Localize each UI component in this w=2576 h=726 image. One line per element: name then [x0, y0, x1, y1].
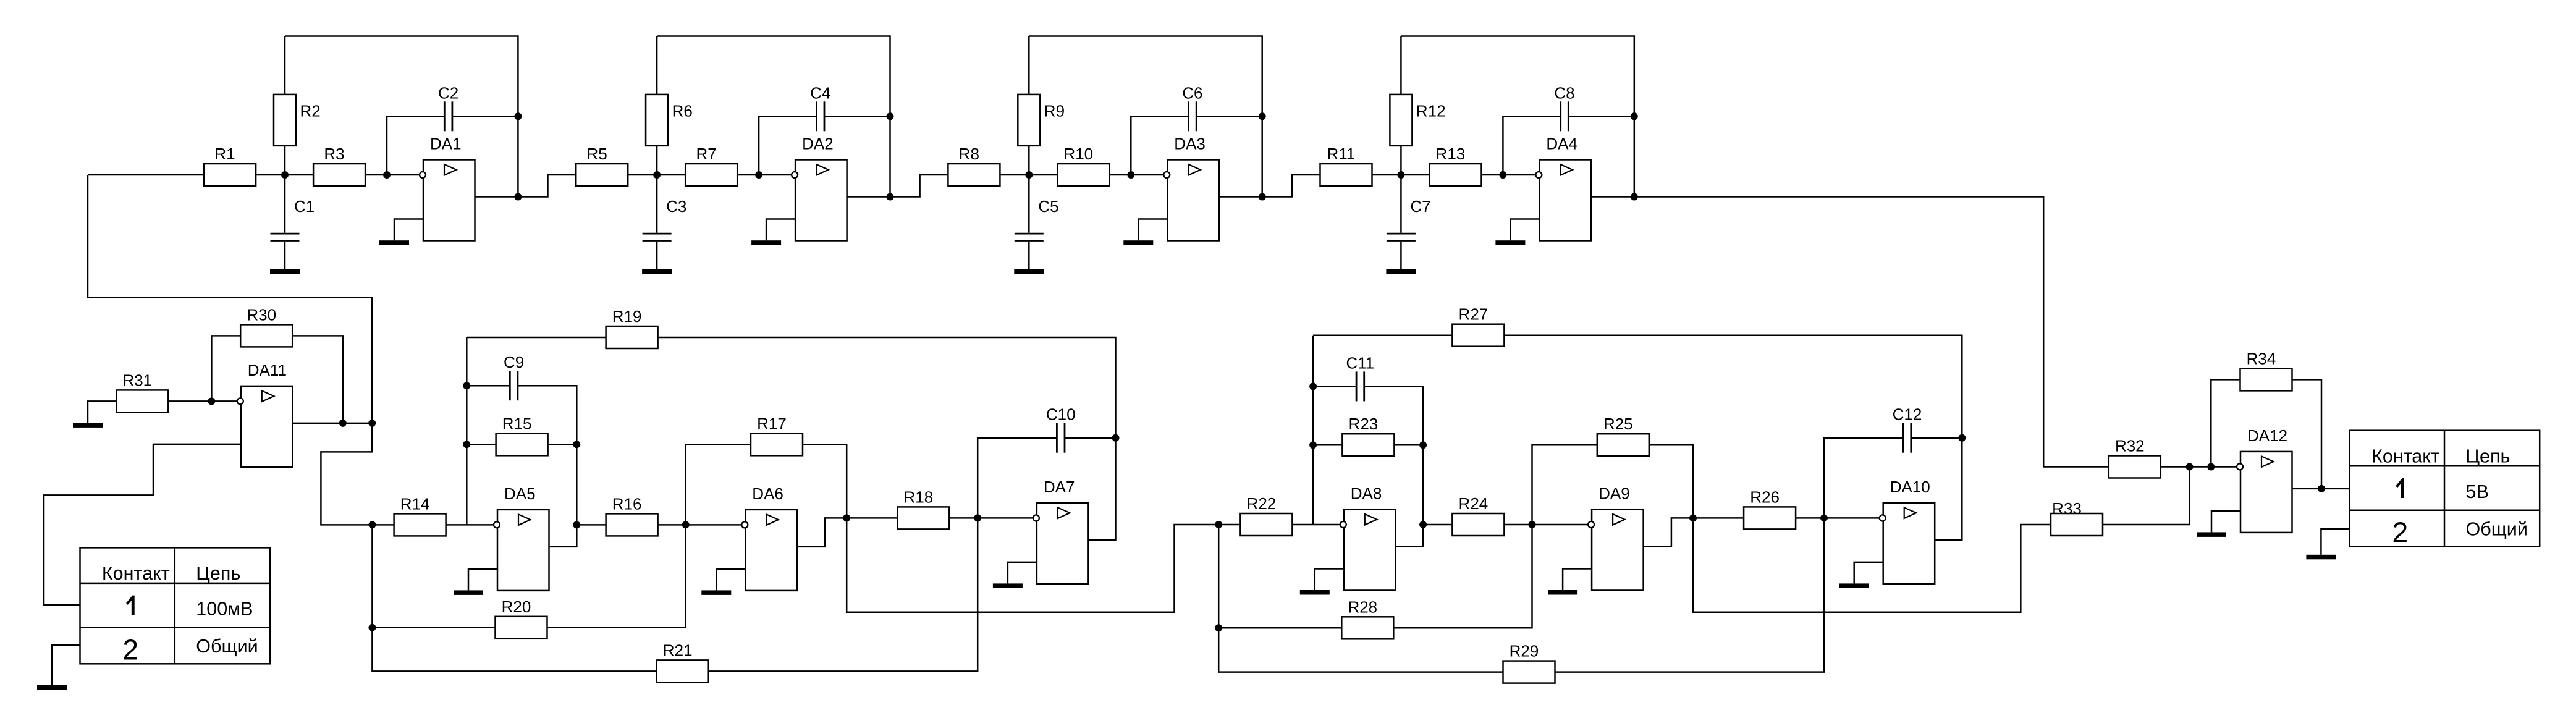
ground under C5: [1014, 269, 1044, 274]
op-amp DA8: [1340, 484, 1396, 591]
wire C4 right leg: [824, 116, 890, 117]
ground at DA7: [993, 583, 1023, 588]
wire C10 right leg: [1065, 437, 1116, 439]
wire DA5 output up: [549, 525, 577, 547]
wire node 1 segment: [256, 174, 313, 176]
wire DA12 noninv to ground: [2211, 511, 2240, 533]
wire R23 left leg: [1313, 444, 1342, 446]
op-amp DA9: [1588, 484, 1644, 591]
node junction R11/R12/R13/C7: [1397, 171, 1404, 179]
ground at input connector: [37, 685, 67, 690]
wire stage1 input feed from DA11 output: [88, 175, 372, 423]
resistor R2: [274, 95, 321, 146]
wire row B to R18: [847, 517, 897, 519]
resistor R3: [313, 145, 365, 186]
wire R28 right to mid node: [1393, 525, 1532, 628]
node DA3 output: [1259, 193, 1266, 201]
resistor R24: [1452, 494, 1504, 536]
svg-text:R23: R23: [1349, 415, 1379, 433]
svg-text:R33: R33: [2052, 499, 2082, 518]
resistor R25: [1597, 415, 1649, 456]
svg-text:2: 2: [2392, 517, 2408, 549]
svg-text:C6: C6: [1182, 83, 1202, 102]
wire R9 bottom to node: [1028, 145, 1030, 175]
node junction R8/R9/R10/C5: [1025, 171, 1033, 179]
node C11 left: [1309, 382, 1317, 390]
wire DA6 noninv to ground: [716, 569, 745, 591]
resistor R26: [1744, 488, 1796, 529]
wire C6 left leg: [1131, 116, 1188, 175]
ground at output connector: [2306, 555, 2336, 560]
wire R29 right to DA10 input: [1555, 518, 1825, 672]
op-amp DA11: [237, 361, 293, 467]
wire R7 to op-amp input: [737, 174, 792, 176]
node R30/DA11 output: [339, 420, 347, 427]
wire R28 left: [1218, 627, 1341, 629]
resistor R1: [204, 145, 256, 186]
ground under C7: [1386, 269, 1416, 274]
node R20 tap: [368, 624, 376, 631]
node R23 left: [1309, 441, 1317, 449]
node DA5 output/R16: [573, 521, 580, 528]
svg-text:R21: R21: [663, 641, 693, 659]
svg-text:R11: R11: [1327, 145, 1356, 163]
capacitor C5: [1015, 197, 1059, 241]
wire C6 right leg: [1196, 116, 1262, 117]
wire DA7 noninv to ground: [1008, 562, 1037, 584]
ground at DA8: [1300, 590, 1330, 595]
svg-text:R34: R34: [2247, 349, 2276, 368]
svg-text:C5: C5: [1038, 197, 1058, 216]
wire DA9 output down and onward: [1693, 518, 2065, 612]
svg-text:DA5: DA5: [504, 484, 536, 503]
svg-text:R24: R24: [1459, 494, 1489, 513]
svg-text:C9: C9: [504, 353, 524, 371]
ground at R31: [73, 423, 103, 428]
svg-text:R5: R5: [586, 145, 607, 163]
svg-text:R15: R15: [502, 414, 532, 433]
capacitor C9: [504, 353, 524, 400]
resistor R32: [2109, 436, 2161, 478]
wire R20 left: [372, 627, 495, 629]
wire DA1 noninv input to ground: [394, 219, 423, 241]
resistor R33: [2051, 499, 2103, 536]
svg-text:R26: R26: [1750, 488, 1780, 506]
wire R16 to DA6: [658, 524, 742, 526]
wire R23 right leg: [1394, 444, 1423, 446]
wire R30 left leg: [211, 336, 240, 401]
wire R31 to ground: [88, 401, 116, 423]
wire C2 left leg: [387, 116, 444, 175]
wire node 7 segment: [1372, 174, 1429, 176]
node R15 right: [573, 441, 580, 448]
svg-text:C12: C12: [1893, 405, 1922, 424]
svg-text:DA2: DA2: [802, 135, 834, 153]
wire C8 right leg: [1568, 116, 1634, 117]
wire DA2 output: [847, 196, 890, 198]
resistor R10: [1057, 145, 1109, 186]
op-amp DA6: [741, 484, 797, 591]
wire top feedback R6 to output node: [657, 36, 890, 197]
wire C2 right leg: [452, 116, 518, 117]
node DA9 output: [1689, 514, 1697, 521]
wire C11 left leg: [1313, 386, 1356, 387]
wire input from DA11 output to R1: [88, 174, 205, 176]
wire C8 left leg: [1503, 116, 1560, 175]
node R23 right: [1419, 441, 1427, 449]
op-amp DA2: [792, 135, 847, 241]
wire DA7 output: [1088, 438, 1115, 540]
node junction R1/R2/R3/C1: [281, 171, 289, 179]
wire R13 to op-amp input: [1482, 174, 1536, 176]
node DA1 output: [514, 193, 522, 201]
wire DA1 output: [475, 196, 518, 198]
capacitor C10: [1046, 405, 1076, 453]
node junction R10/op-amp/C6: [1127, 171, 1134, 179]
svg-text:Контакт: Контакт: [2371, 445, 2439, 466]
wire R12 top to feedback: [1400, 36, 1402, 95]
capacitor C12: [1893, 405, 1922, 453]
resistor R29: [1503, 642, 1555, 683]
wire R20 right to mid node: [547, 525, 686, 627]
wire C7 to ground: [1400, 242, 1402, 269]
capacitor C7: [1387, 197, 1431, 241]
wire node to C1: [284, 175, 286, 233]
resistor R13: [1430, 145, 1482, 186]
wire R12 bottom to node: [1400, 145, 1402, 175]
wire R30 right leg: [292, 336, 343, 423]
wire DA8 noninv to ground: [1315, 569, 1344, 591]
wire DA10 output: [1935, 438, 1962, 540]
wire node vertical to R20/R21: [372, 525, 656, 671]
wire DA11 output: [292, 423, 372, 424]
wire R3 to op-amp input: [365, 174, 420, 176]
wire R19 left: [467, 337, 606, 339]
node R30/R31/DA11 input: [208, 397, 215, 405]
node R14 input: [368, 521, 376, 528]
wire DA6 output up to row B: [797, 518, 847, 547]
node junction R5/R6/R7/C3: [653, 171, 661, 179]
svg-text:R13: R13: [1436, 145, 1466, 163]
node R34 left leg: [2207, 463, 2215, 471]
resistor R19: [606, 307, 658, 348]
svg-text:R27: R27: [1459, 305, 1489, 324]
wire R26 to DA10: [1796, 517, 1880, 519]
svg-text:DA7: DA7: [1044, 478, 1075, 496]
ground at DA10: [1839, 583, 1869, 588]
capacitor C6: [1182, 83, 1202, 131]
resistor R30: [240, 305, 292, 347]
node DA6 output: [843, 514, 850, 521]
op-amp DA7: [1033, 478, 1089, 584]
wire R27 left: [1313, 334, 1452, 336]
wire C10 left leg: [978, 438, 1057, 518]
node mid R24/DA9/R27/R28: [1529, 521, 1536, 528]
ground at DA3 noninv input: [1123, 240, 1153, 245]
resistor R27: [1452, 305, 1504, 347]
svg-text:R2: R2: [300, 101, 321, 120]
node R15 left: [463, 441, 470, 448]
svg-text:DA3: DA3: [1174, 135, 1206, 153]
svg-text:C4: C4: [810, 83, 830, 102]
svg-text:Цепь: Цепь: [2466, 445, 2511, 466]
svg-text:C7: C7: [1410, 197, 1430, 216]
capacitor C11: [1346, 353, 1375, 401]
svg-text:R28: R28: [1348, 597, 1377, 616]
op-amp DA5: [494, 484, 549, 591]
wire R2 top to feedback: [284, 36, 286, 95]
op-amp DA1: [420, 135, 475, 241]
wire C11 right leg: [1364, 386, 1423, 525]
wire DA11 output jog down to R14 node: [321, 423, 372, 525]
resistor R9: [1018, 95, 1065, 146]
ground at DA6: [701, 590, 731, 595]
ground at DA2 noninv input: [751, 240, 781, 245]
node DA12 output/R34: [2318, 485, 2325, 492]
input connector table (Контакт/Цепь): [80, 547, 271, 665]
wire top feedback R9 to output node: [1029, 36, 1262, 197]
wire DA4 output: [1591, 196, 1634, 198]
svg-text:C3: C3: [666, 197, 686, 216]
node DA11 output/feed: [368, 420, 376, 427]
wire R31 to DA11 input: [168, 400, 240, 402]
svg-text:R8: R8: [959, 145, 979, 163]
svg-text:R14: R14: [400, 494, 430, 513]
svg-text:DA1: DA1: [430, 135, 462, 153]
svg-text:R1: R1: [214, 145, 235, 163]
svg-text:R9: R9: [1044, 101, 1065, 120]
wire DA12 output: [2292, 488, 2350, 490]
wire node 3 segment: [628, 174, 685, 176]
resistor R15: [496, 414, 548, 455]
wire DA11 noninv to input connector pin 1: [44, 444, 241, 605]
capacitor C2: [438, 83, 458, 131]
wire R27 right to DA10 output: [1504, 336, 1962, 438]
wire R19 right to DA7 output: [658, 337, 1116, 438]
wire R15 left leg: [467, 444, 496, 445]
resistor R6: [646, 95, 693, 146]
svg-text:R18: R18: [903, 488, 933, 506]
node DA4 output: [1631, 193, 1638, 201]
wire R6 top to feedback: [656, 36, 658, 95]
resistor R11: [1320, 145, 1372, 186]
wire DA3 output to next stage: [1262, 175, 1320, 197]
svg-text:R16: R16: [612, 494, 642, 513]
node junction R7/op-amp/C4: [755, 171, 762, 179]
wire DA4 noninv input to ground: [1510, 219, 1539, 241]
capacitor C3: [643, 197, 687, 241]
op-amp DA10: [1880, 478, 1935, 584]
wire input connector pin 2 to ground: [52, 645, 80, 685]
svg-text:DA6: DA6: [752, 484, 783, 503]
node C12/R27/DA10 output: [1958, 434, 1966, 442]
ground at DA12: [2197, 532, 2226, 537]
svg-text:Общий: Общий: [196, 636, 258, 657]
wire R34 right leg: [2292, 379, 2322, 489]
wire C5 to ground: [1028, 242, 1030, 269]
wire DA2 output to next stage: [890, 175, 948, 197]
wire top feedback R2 to output node: [285, 36, 518, 197]
svg-text:R30: R30: [247, 305, 276, 324]
wire node 5 segment: [1000, 174, 1057, 176]
wire R25 left leg: [1532, 445, 1597, 525]
wire DA10 noninv to ground: [1854, 562, 1883, 584]
svg-text:R3: R3: [324, 145, 344, 163]
wire R10 to op-amp input: [1109, 174, 1163, 176]
wire R6 bottom to node: [656, 145, 658, 175]
svg-text:R7: R7: [696, 145, 716, 163]
capacitor C4: [810, 83, 830, 131]
wire R24 to DA9: [1504, 524, 1588, 526]
op-amp DA3: [1163, 135, 1219, 241]
wire DA8 output up: [1395, 525, 1423, 547]
svg-text:DA11: DA11: [248, 361, 287, 379]
svg-text:Общий: Общий: [2466, 519, 2528, 540]
wire node to C7: [1400, 175, 1402, 233]
resistor R18: [897, 488, 949, 529]
wire R17 right leg: [803, 444, 847, 518]
ground at DA5: [454, 590, 483, 595]
svg-text:R29: R29: [1510, 642, 1539, 661]
svg-text:100мВ: 100мВ: [196, 599, 253, 620]
svg-text:R17: R17: [757, 414, 787, 433]
wire DA5 noninv to ground: [468, 569, 497, 591]
svg-text:Контакт: Контакт: [102, 563, 170, 584]
resistor R22: [1240, 494, 1292, 536]
resistor R12: [1390, 95, 1445, 146]
svg-text:5В: 5В: [2466, 481, 2489, 502]
svg-text:R20: R20: [502, 597, 531, 616]
resistor R34: [2240, 349, 2292, 390]
capacitor C1: [271, 197, 315, 241]
svg-text:C8: C8: [1554, 83, 1574, 102]
wire DA1 output to next stage: [518, 175, 576, 197]
resistor R31: [116, 371, 168, 412]
wire node to R22: [1218, 524, 1240, 526]
resistor R20: [496, 597, 547, 639]
svg-text:R12: R12: [1416, 101, 1446, 120]
wire feedback left vertical: [1312, 336, 1314, 525]
node DA8 output/R24: [1419, 521, 1427, 528]
svg-text:R10: R10: [1063, 145, 1093, 163]
wire DA9 output up to row B: [1644, 518, 1693, 546]
wire top feedback R12 to output node: [1401, 36, 1634, 197]
wire row B to R26: [1693, 517, 1744, 519]
wire R16 segment: [576, 524, 606, 526]
output connector table (Контакт/Цепь): [2350, 431, 2540, 549]
wire C9 right leg: [518, 386, 576, 525]
node junction R3/op-amp/C2: [383, 171, 391, 179]
ground at DA9: [1548, 590, 1577, 595]
wire C1 to ground: [284, 242, 286, 269]
svg-text:R32: R32: [2115, 436, 2145, 455]
svg-text:C11: C11: [1346, 353, 1375, 372]
node DA2 output: [887, 193, 894, 201]
wire node vertical to R28/R29: [1218, 525, 1503, 672]
resistor R5: [576, 145, 628, 186]
wire R17 left leg: [686, 444, 751, 525]
node R33/R32: [2186, 463, 2194, 471]
wire R14 to DA5 input: [446, 524, 494, 526]
node C6/feedback: [1259, 112, 1266, 120]
wire DA4 output to R32: [1634, 197, 2109, 467]
capacitor C8: [1554, 83, 1574, 131]
wire R21 right to DA7 input: [709, 518, 978, 671]
resistor R17: [751, 414, 803, 455]
svg-text:C10: C10: [1046, 405, 1076, 424]
wire R34 left leg: [2211, 379, 2240, 466]
svg-text:DA9: DA9: [1598, 484, 1630, 503]
resistor R8: [948, 145, 1000, 186]
wire DA3 noninv input to ground: [1138, 219, 1167, 241]
svg-text:R22: R22: [1247, 494, 1277, 513]
svg-text:R19: R19: [612, 307, 642, 326]
resistor R14: [394, 494, 446, 536]
wire R2 bottom to node: [284, 145, 286, 175]
ground under C3: [642, 269, 672, 274]
wire node to R14: [372, 524, 394, 526]
wire C12 right leg: [1911, 437, 1962, 439]
wire R32 to DA12 input: [2161, 466, 2239, 468]
wire C9 left leg: [467, 385, 510, 387]
svg-text:DA4: DA4: [1546, 135, 1577, 153]
wire DA6 output down and onward: [847, 518, 1218, 612]
wire DA9 noninv to ground: [1563, 569, 1592, 591]
wire C4 left leg: [759, 116, 816, 175]
node R22 input: [1215, 521, 1222, 528]
wire node to C3: [656, 175, 658, 233]
wire output connector pin 2 to ground: [2321, 529, 2349, 555]
svg-text:2: 2: [122, 633, 138, 665]
svg-text:DA10: DA10: [1890, 478, 1930, 496]
wire R9 top to feedback: [1028, 36, 1030, 95]
wire R22 to DA8 input: [1292, 524, 1340, 526]
wire R33 right to DA12 input node: [2103, 467, 2190, 525]
wire R25 right leg: [1649, 445, 1693, 518]
op-amp DA4: [1535, 135, 1591, 241]
svg-text:C1: C1: [294, 197, 315, 216]
svg-text:Цепь: Цепь: [196, 563, 240, 584]
resistor R7: [685, 145, 737, 186]
node C10/R19/DA7 output: [1112, 434, 1120, 442]
node mid R16/DA6/R19/R20: [682, 521, 690, 528]
svg-text:DA8: DA8: [1351, 484, 1382, 503]
wire C12 left leg: [1824, 438, 1903, 518]
wire feedback left vertical: [466, 337, 468, 525]
wire node to C5: [1028, 175, 1030, 233]
node C2/feedback: [514, 112, 522, 120]
wire R24 segment: [1423, 524, 1452, 526]
node R18/DA7/C10: [974, 514, 981, 521]
svg-text:C2: C2: [438, 83, 458, 102]
svg-text:DA12: DA12: [2247, 426, 2287, 445]
node C9 left: [463, 382, 470, 389]
svg-text:R31: R31: [122, 371, 152, 389]
node C8/feedback: [1631, 112, 1638, 120]
ground at DA1 noninv input: [379, 240, 409, 245]
node junction R13/op-amp/C8: [1499, 171, 1506, 179]
resistor R28: [1341, 597, 1393, 639]
wire R15 right leg: [548, 444, 577, 445]
wire C3 to ground: [656, 242, 658, 269]
op-amp DA12: [2237, 426, 2292, 533]
ground at DA4 noninv input: [1495, 240, 1525, 245]
resistor R23: [1342, 415, 1394, 456]
svg-text:R6: R6: [672, 101, 693, 120]
resistor R21: [657, 641, 709, 682]
wire DA2 noninv input to ground: [766, 219, 795, 241]
wire R18 to DA7: [949, 517, 1033, 519]
